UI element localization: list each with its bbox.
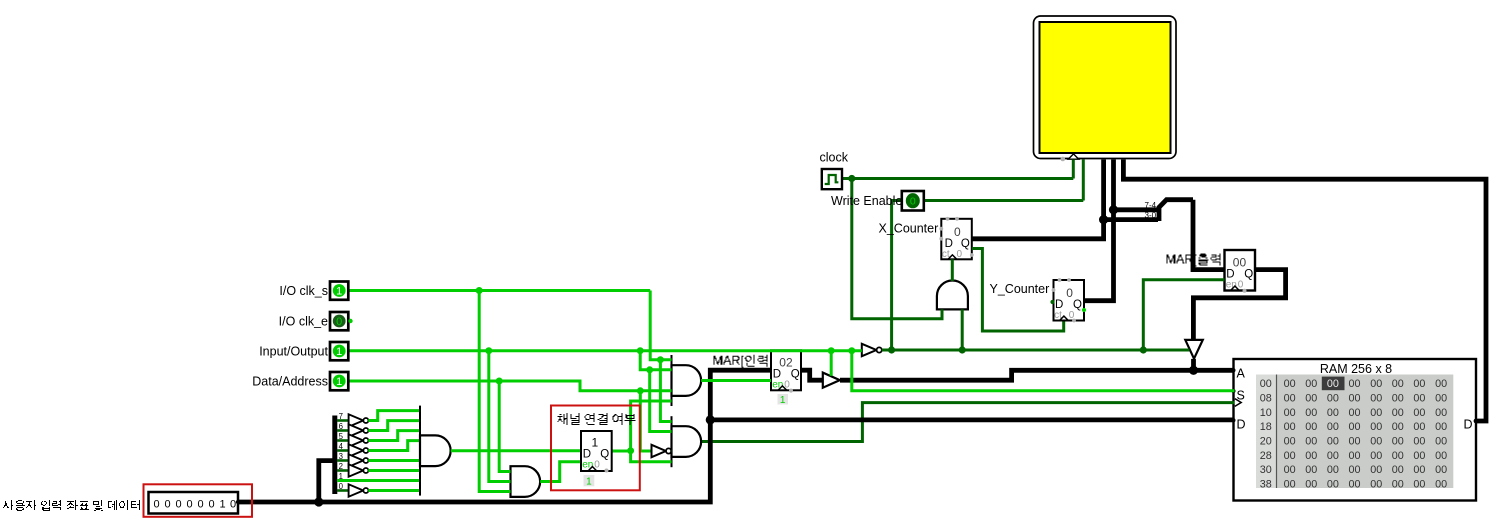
svg-text:00: 00 [1413, 378, 1425, 390]
wire not bit 6 output [368, 421, 420, 431]
splitter bit 1 stub [337, 479, 420, 482]
not gate before G4 [652, 445, 666, 457]
wire write-enable net [892, 160, 1084, 351]
svg-text:0: 0 [1066, 286, 1073, 300]
not gate bit 0 [349, 484, 364, 496]
svg-text:1: 1 [780, 395, 786, 406]
svg-text:00: 00 [1435, 407, 1447, 419]
wire buffer enable from Input/Output line [830, 351, 833, 376]
svg-text:00: 00 [1413, 479, 1425, 491]
svg-text:00: 00 [1392, 407, 1404, 419]
splitter bit 5 stub [337, 439, 349, 442]
svg-text:00: 00 [1370, 479, 1382, 491]
label sa-yong-ja input coords and data [3, 500, 140, 511]
svg-text:00: 00 [1435, 393, 1447, 405]
svg-text:00: 00 [1370, 393, 1382, 405]
svg-text:38: 38 [1260, 479, 1272, 491]
svg-text:00: 00 [1348, 378, 1360, 390]
svg-text:00: 00 [1284, 479, 1296, 491]
junction IO at x488 [485, 347, 492, 354]
junction 0-line U5 branch [959, 346, 966, 353]
svg-text:00: 00 [1284, 421, 1296, 433]
svg-text:00: 00 [1327, 393, 1339, 405]
svg-text:00: 00 [1327, 479, 1339, 491]
wire DA branch to G2 input1 [499, 381, 510, 472]
svg-text:I/O clk_s: I/O clk_s [279, 284, 328, 298]
wire not bit 7 output [368, 411, 420, 421]
svg-text:00: 00 [1348, 436, 1360, 448]
wire not output to G4 input3 [670, 450, 673, 453]
junction DA at x640 [637, 387, 644, 394]
junction 0-line MAR[out] enable branch [1140, 346, 1147, 353]
svg-text:D: D [1464, 417, 1473, 431]
register MAR[out] [1225, 250, 1256, 293]
svg-text:00: 00 [1327, 378, 1339, 390]
svg-text:00: 00 [1260, 378, 1272, 390]
wire MAR[out] Q loop to down-buffer [1193, 270, 1285, 340]
wire Input/Output net [349, 349, 862, 352]
red annotation box channel [551, 406, 640, 491]
wire not bit 0 output [368, 489, 420, 492]
svg-text:00: 00 [1392, 378, 1404, 390]
display unconnected pin nub [1061, 157, 1066, 162]
svg-text:X_Counter: X_Counter [879, 222, 939, 236]
not gate bit 2 [349, 464, 364, 476]
controlled buffer facing down to RAM address [1185, 340, 1203, 359]
svg-text:2: 2 [339, 462, 343, 471]
svg-text:00: 00 [1284, 393, 1296, 405]
svg-text:Q: Q [600, 449, 609, 461]
junction X bus [1099, 215, 1108, 224]
display screen (yellow video output) [1034, 16, 1177, 159]
wire display data input from RAM D output [1123, 160, 1486, 422]
svg-text:7-4: 7-4 [1145, 201, 1157, 210]
svg-text:I/O clk_e: I/O clk_e [279, 314, 328, 328]
svg-text:00: 00 [1370, 421, 1382, 433]
svg-text:0: 0 [957, 249, 963, 260]
svg-text:3-0: 3-0 [1145, 211, 1157, 220]
svg-text:Data/Address: Data/Address [252, 374, 328, 388]
svg-text:en: en [772, 379, 783, 390]
svg-text:00: 00 [1413, 464, 1425, 476]
svg-text:00: 00 [1413, 436, 1425, 448]
write enable output pin component [902, 191, 924, 211]
wire IO branch to G4 input2 [650, 370, 672, 432]
display clock pin triangle [1068, 154, 1078, 159]
D flip-flop channel connect [581, 431, 612, 487]
svg-text:10: 10 [1260, 407, 1272, 419]
RAM 256 x 8 [1232, 359, 1479, 501]
wire AND U5 left input to clock line [941, 309, 944, 318]
wire AND U5 output to X_Counter clock [951, 259, 954, 281]
svg-text:00: 00 [1435, 378, 1447, 390]
user input component 8-bit [149, 492, 241, 514]
svg-text:20: 20 [1260, 436, 1272, 448]
wire MAR[out] enable from 0-line [1143, 280, 1224, 350]
input pin Input/Output [330, 342, 348, 360]
svg-text:00: 00 [1435, 464, 1447, 476]
svg-text:6: 6 [339, 422, 343, 431]
wire clk_s branch to G2 [479, 291, 510, 492]
wire bus splitter to MAR[out] D input [1193, 200, 1225, 270]
svg-text:Write Enable: Write Enable [831, 194, 902, 208]
svg-text:00: 00 [1392, 479, 1404, 491]
wire X_Counter carry to Y_Counter clock [972, 249, 1064, 332]
not gate bit 4 [349, 444, 364, 456]
svg-text:00: 00 [1327, 450, 1339, 462]
wire G3 output to MAR[in] enable [701, 379, 771, 382]
wire MAR[in] Q to buffer [801, 370, 823, 380]
wire G1 output to DFF D [451, 449, 581, 452]
svg-text:00: 00 [1413, 450, 1425, 462]
svg-text:Input/Output: Input/Output [259, 344, 328, 358]
splitter for user byte [332, 416, 337, 495]
svg-text:00: 00 [1370, 436, 1382, 448]
svg-text:A: A [1237, 366, 1246, 380]
svg-text:0: 0 [208, 498, 214, 510]
label chae-neol yeon-gyeol yeo-bu [558, 413, 636, 425]
register MAR[in] [771, 350, 801, 406]
not gate bit 7 [349, 414, 364, 426]
wire not-output 0 line [882, 349, 1190, 352]
svg-text:00: 00 [1348, 450, 1360, 462]
svg-text:00: 00 [1370, 464, 1382, 476]
svg-text:0: 0 [339, 482, 344, 491]
wire clk_s branch to G4 input1 [660, 360, 671, 422]
input pin Data/Address [330, 372, 348, 390]
svg-text:0: 0 [197, 498, 203, 510]
svg-text:00: 00 [1435, 436, 1447, 448]
svg-text:00: 00 [1284, 407, 1296, 419]
svg-text:5: 5 [339, 432, 344, 441]
junction user bus at input [314, 497, 323, 506]
buffer after MAR[in] [823, 373, 840, 388]
svg-text:RAM 256 x 8: RAM 256 x 8 [1320, 362, 1392, 376]
svg-text:00: 00 [1370, 378, 1382, 390]
svg-text:0: 0 [153, 498, 159, 510]
junction IO lane swap [646, 366, 653, 373]
svg-text:00: 00 [1370, 450, 1382, 462]
svg-text:00: 00 [1327, 407, 1339, 419]
label MAR[chul-ryeok] [1167, 254, 1226, 267]
junction Y bus [1109, 205, 1118, 214]
svg-text:00: 00 [1348, 464, 1360, 476]
not gate after Input/Output line (to enable nets) [862, 344, 877, 356]
not gate bit 3 [349, 454, 364, 466]
label MAR[in-ryeok] [714, 355, 773, 368]
splitter bit 3 stub [337, 459, 349, 462]
wire Data/Address net [349, 381, 672, 391]
junction IO RAM select branch [848, 347, 855, 354]
svg-text:en: en [1226, 279, 1237, 290]
svg-text:0: 0 [336, 316, 342, 328]
and gate G1 8-input [420, 406, 451, 496]
svg-text:08: 08 [1260, 393, 1272, 405]
junction RAM A [1189, 366, 1198, 375]
svg-text:clock: clock [820, 151, 849, 165]
junction 0-line write enable branch [888, 346, 895, 353]
wire G2 output to DFF enable [540, 462, 581, 482]
svg-text:0: 0 [175, 498, 181, 510]
svg-text:00: 00 [1413, 393, 1425, 405]
input pin I/O clk_e [330, 312, 348, 330]
svg-text:0: 0 [954, 225, 961, 239]
wire not bit 3 output [368, 459, 420, 462]
svg-text:00: 00 [1392, 393, 1404, 405]
svg-text:00: 00 [1435, 421, 1447, 433]
svg-text:00: 00 [1392, 464, 1404, 476]
junction clock net [848, 175, 855, 182]
svg-text:00: 00 [1284, 464, 1296, 476]
wire X_Counter Q to display and 3-0 splitter branch [972, 160, 1158, 239]
svg-text:00: 00 [1284, 450, 1296, 462]
svg-text:D: D [1237, 417, 1246, 431]
svg-text:0: 0 [230, 498, 236, 510]
svg-text:Q: Q [1244, 269, 1253, 281]
svg-text:18: 18 [1260, 421, 1272, 433]
svg-text:00: 00 [1435, 479, 1447, 491]
svg-text:0: 0 [186, 498, 192, 510]
wire IO branch to G2 input2 [489, 351, 511, 482]
svg-text:7: 7 [339, 412, 343, 421]
svg-text:00: 00 [1305, 421, 1317, 433]
svg-text:00: 00 [1348, 393, 1360, 405]
svg-text:00: 00 [1305, 436, 1317, 448]
junction DA at x499 [496, 378, 503, 385]
splitter bit 2 stub [337, 469, 349, 472]
wire gate4 output to RAM clock [701, 403, 1235, 442]
wire MAR[in] data path to RAM A [840, 370, 1235, 380]
junction DFF Q [627, 447, 634, 454]
splitter bit 7 stub [337, 419, 349, 422]
wire not bit 2 output [368, 469, 420, 472]
wire clk_s net [349, 291, 672, 360]
svg-text:00: 00 [1305, 464, 1317, 476]
red annotation box user input [144, 484, 253, 517]
and gate U5 clock gating (faces up) [937, 280, 968, 309]
svg-text:1: 1 [336, 346, 342, 358]
svg-text:00: 00 [1284, 436, 1296, 448]
not gate bit 6 [349, 424, 364, 436]
svg-text:30: 30 [1260, 464, 1272, 476]
svg-text:en: en [582, 459, 593, 470]
svg-text:00: 00 [1327, 436, 1339, 448]
svg-text:00: 00 [1305, 378, 1317, 390]
svg-text:00: 00 [1413, 421, 1425, 433]
svg-text:00: 00 [1305, 479, 1317, 491]
wire not bit 5 output [368, 431, 420, 441]
splitter 7-4 / 3-0 to 8-bit bus [1159, 200, 1193, 221]
wire AND U5 right input to enable line [961, 309, 964, 350]
and gate G3 4-input [672, 355, 702, 406]
splitter bit 6 stub [337, 429, 349, 432]
junction clk_s at x479 [476, 287, 483, 294]
svg-text:0: 0 [910, 196, 916, 208]
svg-text:00: 00 [1233, 256, 1247, 270]
wire user bus branch to RAM D input [710, 417, 1234, 422]
junction clk_s lane swap [657, 356, 664, 363]
input pin I/O clk_s [330, 282, 348, 300]
svg-text:00: 00 [1305, 407, 1317, 419]
clock component [822, 169, 842, 189]
svg-text:00: 00 [1392, 450, 1404, 462]
svg-text:1: 1 [586, 476, 592, 487]
svg-text:1: 1 [339, 472, 343, 481]
and gate G2 3-input [511, 466, 541, 497]
svg-text:Q: Q [961, 238, 970, 250]
svg-text:00: 00 [1348, 479, 1360, 491]
wire IO branch to G3 input2 [640, 351, 671, 370]
svg-text:02: 02 [779, 356, 793, 370]
wire clock net (clock comp to display and down to AND) [842, 160, 1073, 319]
wire Y_Counter Q to display and 7-4 splitter branch [1084, 160, 1158, 301]
wire DA branch to NOT gate [640, 391, 651, 451]
wire RAM select line (bright) [852, 351, 1235, 391]
svg-text:Q: Q [1073, 299, 1082, 311]
svg-text:Q: Q [791, 369, 800, 381]
counter X_Counter [939, 217, 973, 260]
svg-text:00: 00 [1305, 393, 1317, 405]
splitter bit 0 stub [337, 489, 349, 492]
wire user data bus bottom [238, 370, 771, 502]
svg-text:Y_Counter: Y_Counter [990, 282, 1050, 296]
svg-text:00: 00 [1327, 464, 1339, 476]
svg-text:0: 0 [164, 498, 170, 510]
svg-text:1: 1 [592, 436, 599, 450]
not gate bit 5 [349, 434, 364, 446]
svg-text:00: 00 [1392, 436, 1404, 448]
counter Y_Counter [1050, 278, 1086, 322]
junction IO at x640 [637, 347, 644, 354]
svg-text:1: 1 [219, 498, 225, 510]
svg-text:00: 00 [1370, 407, 1382, 419]
splitter bit 4 stub [337, 449, 349, 452]
svg-text:28: 28 [1260, 450, 1272, 462]
wire DFF Q net [612, 401, 672, 462]
svg-text:3: 3 [339, 452, 343, 461]
svg-text:4: 4 [339, 442, 344, 451]
wire user bus to splitter [319, 461, 335, 502]
svg-text:00: 00 [1305, 450, 1317, 462]
svg-text:00: 00 [1435, 450, 1447, 462]
svg-text:00: 00 [1413, 407, 1425, 419]
svg-text:0: 0 [1238, 279, 1244, 290]
junction user bus to RAM D [706, 415, 715, 424]
svg-text:00: 00 [1327, 421, 1339, 433]
svg-text:00: 00 [1348, 421, 1360, 433]
svg-text:00: 00 [1348, 407, 1360, 419]
junction IO buffer enable [828, 347, 835, 354]
svg-text:1: 1 [336, 285, 342, 297]
pin clk_e unconnected nub [348, 319, 352, 323]
wire down-buffer output to RAM A [1191, 359, 1196, 370]
svg-text:00: 00 [1284, 378, 1296, 390]
svg-text:00: 00 [1392, 421, 1404, 433]
and gate G4 4-input [672, 416, 702, 467]
svg-text:1: 1 [336, 376, 342, 388]
wire not bit 4 output [368, 441, 420, 451]
